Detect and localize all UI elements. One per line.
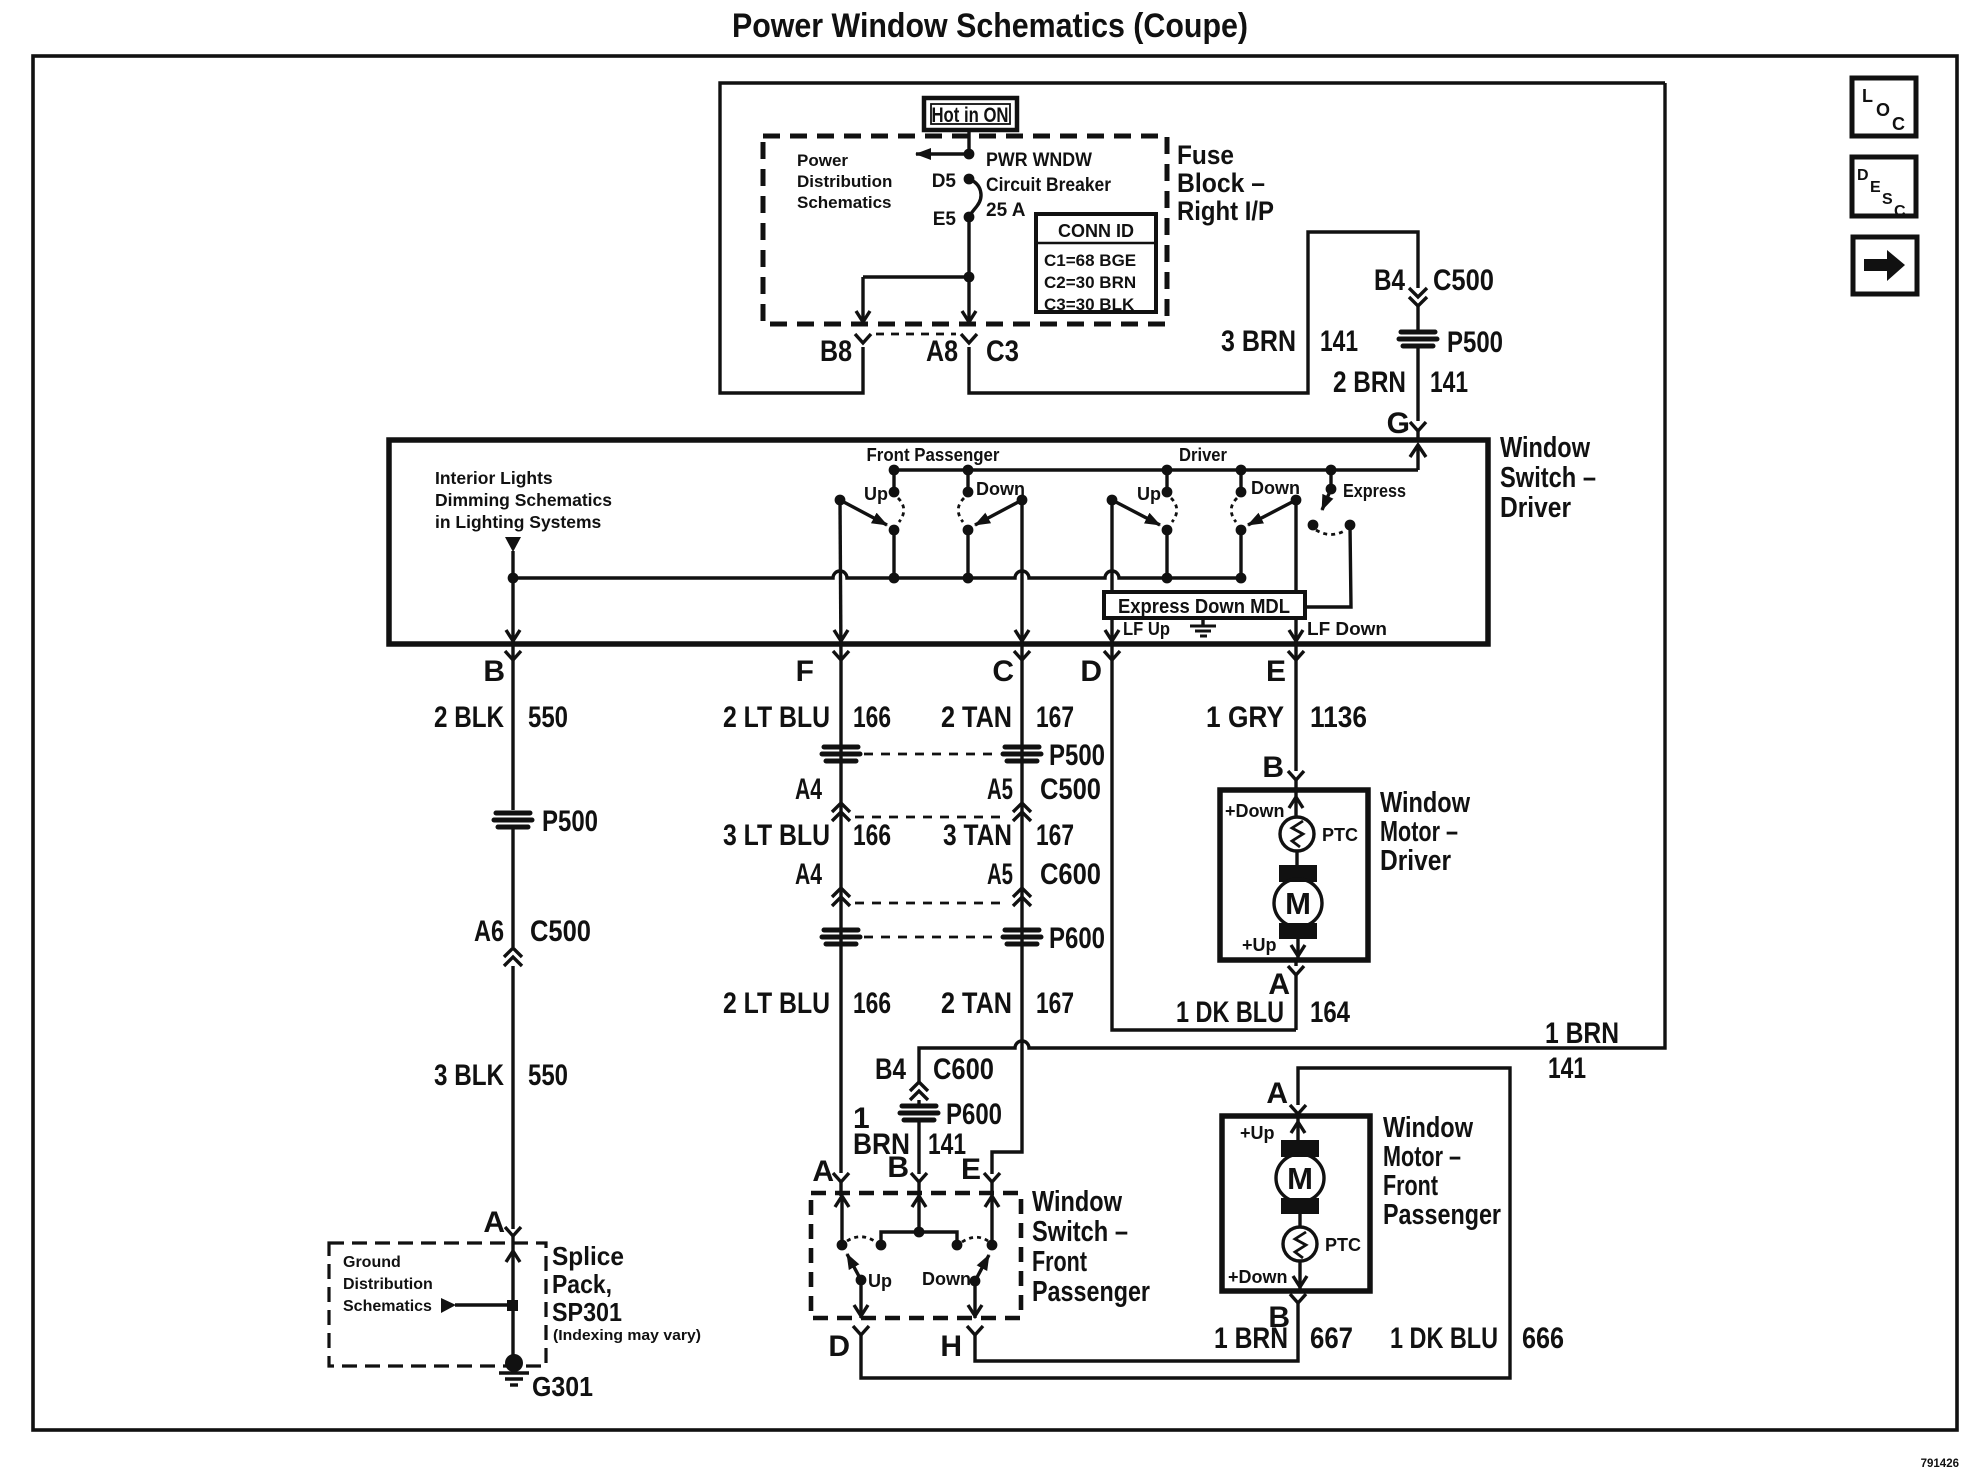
- svg-text:1136: 1136: [1310, 701, 1367, 734]
- svg-text:141: 141: [1320, 325, 1358, 358]
- exit H: [973, 1281, 976, 1318]
- Hot in ON flag: [924, 98, 1017, 130]
- svg-text:+Down: +Down: [1228, 1267, 1288, 1287]
- window motor front passenger box: [1222, 1116, 1370, 1291]
- svg-text:D5: D5: [932, 171, 957, 192]
- top bus junction dots: [889, 465, 900, 476]
- wire 2 BLK 550 (B column): [511, 660, 514, 810]
- connector A (driver motor): [1294, 960, 1297, 966]
- svg-text:B: B: [1268, 1301, 1290, 1334]
- svg-text:Fuse: Fuse: [1177, 140, 1234, 170]
- svg-text:M: M: [1285, 886, 1311, 921]
- wire to P600: [917, 1100, 920, 1107]
- svg-text:P500: P500: [1049, 739, 1105, 772]
- svg-text:667: 667: [1310, 1322, 1353, 1355]
- connector interface dashes B8/A8: [876, 333, 956, 336]
- splice P500 on F: [822, 747, 860, 761]
- svg-text:Splice: Splice: [552, 1241, 624, 1271]
- svg-text:C1=68 BGE: C1=68 BGE: [1044, 251, 1136, 270]
- svg-text:S: S: [1882, 191, 1893, 208]
- wire C inside switch: [1020, 500, 1023, 659]
- svg-text:Front: Front: [1383, 1170, 1438, 1202]
- svg-text:A4: A4: [795, 773, 822, 806]
- svg-text:550: 550: [528, 701, 568, 734]
- svg-text:A: A: [1266, 1077, 1288, 1110]
- svg-text:Motor –: Motor –: [1380, 816, 1458, 848]
- svg-text:2 LT BLU: 2 LT BLU: [723, 987, 830, 1020]
- svg-text:C500: C500: [530, 915, 591, 948]
- switch: front passenger down: [958, 470, 1027, 578]
- svg-text:550: 550: [528, 1059, 568, 1092]
- junction node and branch to B8: [964, 272, 975, 283]
- svg-text:666: 666: [1522, 1322, 1564, 1355]
- svg-text:Up: Up: [864, 484, 888, 504]
- DESC icon: [1852, 157, 1916, 220]
- wire LF Down: [1294, 618, 1297, 659]
- svg-text:3 LT BLU: 3 LT BLU: [723, 819, 830, 852]
- PTC thermistor: [1280, 817, 1314, 851]
- svg-text:in Lighting Systems: in Lighting Systems: [435, 512, 602, 532]
- svg-text:Interior Lights: Interior Lights: [435, 468, 553, 488]
- tie line P500 pair: [864, 753, 999, 756]
- connector pin C: [1014, 651, 1030, 660]
- svg-text:Distribution: Distribution: [343, 1276, 433, 1293]
- svg-text:Up: Up: [868, 1271, 892, 1291]
- svg-text:C2=30 BRN: C2=30 BRN: [1044, 273, 1136, 292]
- svg-text:166: 166: [853, 987, 891, 1020]
- connector B4 / C500: [1409, 288, 1427, 297]
- motor M: [1279, 865, 1317, 882]
- svg-text:L: L: [1862, 86, 1873, 106]
- svg-text:Passenger: Passenger: [1383, 1199, 1501, 1231]
- svg-text:Window: Window: [1380, 787, 1470, 819]
- svg-text:Switch –: Switch –: [1500, 462, 1596, 494]
- tie line C600 pair: [855, 902, 1008, 905]
- svg-text:2 BRN: 2 BRN: [1333, 366, 1406, 399]
- svg-text:G301: G301: [532, 1371, 593, 1402]
- svg-text:(Indexing may vary): (Indexing may vary): [553, 1327, 701, 1344]
- svg-text:2 LT BLU: 2 LT BLU: [723, 701, 830, 734]
- svg-text:Schematics: Schematics: [343, 1298, 432, 1315]
- svg-text:A6: A6: [474, 915, 504, 948]
- wire 3 BLK 550: [511, 966, 514, 1229]
- fp switch internals: [835, 1196, 999, 1318]
- svg-text:3 TAN: 3 TAN: [943, 819, 1012, 852]
- LOC icon: [1852, 78, 1916, 136]
- svg-text:C: C: [1892, 114, 1905, 134]
- svg-text:PTC: PTC: [1325, 1235, 1361, 1255]
- svg-text:+Up: +Up: [1242, 935, 1277, 955]
- splice P500 (ground side): [494, 805, 598, 838]
- svg-text:167: 167: [1036, 819, 1074, 852]
- svg-text:LF Up: LF Up: [1123, 619, 1170, 639]
- wire E column 1 GRY 1136 to motor B: [1294, 660, 1297, 771]
- svg-text:25 A: 25 A: [986, 200, 1026, 221]
- tie line P600 pair: [864, 936, 999, 939]
- svg-text:Express: Express: [1343, 481, 1406, 501]
- svg-text:Right I/P: Right I/P: [1177, 196, 1274, 226]
- wire F inside switch: [840, 500, 841, 659]
- wire: fuse output A8/C3 to connector B4: [969, 232, 1418, 393]
- svg-text:Schematics: Schematics: [797, 193, 892, 212]
- connector A6 C500: [504, 948, 522, 957]
- svg-text:B8: B8: [820, 335, 852, 368]
- svg-text:D: D: [1857, 167, 1869, 184]
- svg-text:Distribution: Distribution: [797, 172, 892, 191]
- connector G: [1410, 422, 1426, 431]
- svg-text:A4: A4: [795, 858, 822, 891]
- svg-text:O: O: [1876, 100, 1890, 120]
- svg-text:B: B: [887, 1151, 909, 1184]
- svg-text:C3=30 BLK: C3=30 BLK: [1044, 295, 1135, 314]
- svg-text:E: E: [1266, 655, 1286, 688]
- wire driver-up pivot to express module: [1110, 500, 1113, 592]
- svg-text:C500: C500: [1040, 773, 1101, 806]
- svg-text:PTC: PTC: [1322, 825, 1358, 845]
- dashed travel arcs: [847, 1237, 876, 1242]
- svg-text:1 DK BLU: 1 DK BLU: [1390, 1322, 1498, 1355]
- wire driver-down pivot to express module: [1294, 500, 1297, 592]
- svg-text:E: E: [961, 1153, 981, 1186]
- svg-text:C600: C600: [1040, 858, 1101, 891]
- svg-text:P500: P500: [542, 805, 598, 838]
- down blade: [970, 1276, 981, 1287]
- splice P500 on C: [1003, 739, 1105, 772]
- svg-text:C3: C3: [986, 335, 1019, 368]
- arrow from ground distribution note: [441, 1298, 456, 1313]
- bus junction dots: [508, 573, 519, 584]
- svg-text:Window: Window: [1032, 1186, 1122, 1218]
- svg-text:Driver: Driver: [1500, 492, 1571, 524]
- splice P600 (feed): [900, 1098, 1002, 1131]
- fp motor internals: [1228, 1116, 1361, 1289]
- svg-text:D: D: [828, 1330, 850, 1363]
- wire LF Up: [1110, 618, 1113, 659]
- svg-text:Passenger: Passenger: [1032, 1276, 1150, 1308]
- svg-text:Dimming Schematics: Dimming Schematics: [435, 490, 612, 510]
- circuit breaker PWR WNDW 25 A: [932, 129, 1112, 277]
- connector pin F: [833, 651, 849, 660]
- svg-text:2 TAN: 2 TAN: [941, 701, 1012, 734]
- svg-text:+Up: +Up: [1240, 1123, 1275, 1143]
- svg-text:Front Passenger: Front Passenger: [867, 445, 1000, 465]
- pin A entry: [835, 1196, 849, 1207]
- switch: express: [1305, 470, 1406, 607]
- wire P500 to G with label 2 BRN 141: [1416, 348, 1419, 421]
- svg-text:1 DK BLU: 1 DK BLU: [1176, 996, 1284, 1029]
- wire B exit: [511, 578, 514, 659]
- svg-text:A5: A5: [987, 773, 1013, 806]
- svg-text:B4: B4: [875, 1053, 906, 1086]
- svg-text:Down: Down: [976, 479, 1025, 499]
- entry arrow into splice pack: [506, 1251, 520, 1262]
- svg-text:G: G: [1387, 407, 1410, 440]
- svg-text:Hot in ON: Hot in ON: [932, 104, 1009, 127]
- wire 1 BRN 667: H to fp motor B: [975, 1311, 1298, 1361]
- svg-text:1 GRY: 1 GRY: [1206, 701, 1284, 734]
- connector B8: [855, 334, 871, 343]
- svg-text:2 BLK: 2 BLK: [434, 701, 504, 734]
- svg-text:Express Down MDL: Express Down MDL: [1118, 596, 1290, 618]
- svg-text:Window: Window: [1500, 432, 1590, 464]
- svg-text:A5: A5: [987, 858, 1013, 891]
- svg-text:Circuit Breaker: Circuit Breaker: [986, 175, 1112, 196]
- wire 2 TAN 167 (C column) with hop over feed: [992, 660, 1022, 1174]
- svg-text:LF Down: LF Down: [1307, 619, 1387, 639]
- forward arrow icon: [1853, 237, 1917, 294]
- svg-text:3 BRN: 3 BRN: [1221, 325, 1296, 358]
- fuse block dashed box: [763, 136, 1167, 324]
- ground G301: [499, 1354, 593, 1402]
- entry arrow from G: [1416, 446, 1419, 470]
- svg-text:141: 141: [1548, 1052, 1586, 1085]
- up blade: [856, 1275, 867, 1286]
- switch: driver up: [1107, 470, 1177, 578]
- wire D column (LF Up / 1 DK BLU 164): [1112, 660, 1296, 1030]
- svg-text:B: B: [1262, 751, 1284, 784]
- svg-text:167: 167: [1036, 987, 1074, 1020]
- ground at express module: [1190, 618, 1216, 636]
- svg-text:1 BRN: 1 BRN: [1545, 1017, 1619, 1050]
- express down module box: [1104, 592, 1305, 618]
- inner common bus with hop-overs: [513, 571, 1241, 578]
- wire: fuse output B8 loop (left/top rail): [720, 83, 1665, 393]
- svg-text:P500: P500: [1447, 326, 1503, 359]
- svg-text:Power Window Schematics (Coupe: Power Window Schematics (Coupe): [732, 7, 1248, 45]
- connector B4 / C600 (front passenger feed): [910, 1082, 928, 1091]
- window motor driver box: [1220, 790, 1368, 960]
- svg-text:166: 166: [853, 819, 891, 852]
- window switch front passenger dashed box: [811, 1193, 1021, 1318]
- wire 1 BRN 141 into switch B: [917, 1122, 920, 1174]
- svg-text:C600: C600: [933, 1053, 994, 1086]
- svg-text:PWR WNDW: PWR WNDW: [986, 150, 1092, 171]
- svg-text:141: 141: [1430, 366, 1468, 399]
- svg-text:Driver: Driver: [1179, 445, 1227, 465]
- svg-text:A: A: [483, 1206, 505, 1239]
- window switch driver box: [389, 440, 1488, 644]
- svg-text:A: A: [812, 1155, 834, 1188]
- wire to connector A6/C500: [511, 829, 514, 947]
- svg-text:791426: 791426: [1921, 1458, 1959, 1470]
- connector pin B: [505, 651, 521, 660]
- svg-text:H: H: [940, 1330, 962, 1363]
- svg-text:M: M: [1287, 1161, 1313, 1196]
- svg-text:B4: B4: [1374, 264, 1405, 297]
- svg-text:Block –: Block –: [1177, 168, 1265, 198]
- svg-text:Switch –: Switch –: [1032, 1216, 1128, 1248]
- svg-text:B: B: [483, 655, 505, 688]
- svg-text:C: C: [1894, 203, 1906, 220]
- arrow from interior lights note: [505, 537, 521, 552]
- svg-text:3 BLK: 3 BLK: [434, 1059, 504, 1092]
- svg-text:SP301: SP301: [552, 1297, 622, 1327]
- CONN ID table: [1036, 214, 1156, 314]
- splice P600 on C: [1003, 922, 1105, 955]
- svg-text:Motor –: Motor –: [1383, 1141, 1461, 1173]
- svg-text:Pack,: Pack,: [552, 1269, 612, 1299]
- svg-text:Ground: Ground: [343, 1254, 401, 1271]
- wire 1 DK BLU 666: D to fp motor A: [861, 1068, 1510, 1378]
- switch: front passenger up: [835, 470, 904, 578]
- svg-text:+Down: +Down: [1225, 801, 1285, 821]
- svg-text:Down: Down: [1251, 478, 1300, 498]
- svg-text:Window: Window: [1383, 1112, 1473, 1144]
- svg-text:164: 164: [1310, 996, 1350, 1029]
- svg-text:P600: P600: [1049, 922, 1105, 955]
- svg-text:Up: Up: [1137, 484, 1161, 504]
- connector pin E: [1288, 651, 1304, 660]
- ground distribution dashed box: [329, 1243, 546, 1366]
- svg-text:E5: E5: [933, 209, 957, 230]
- svg-text:Down: Down: [922, 1269, 971, 1289]
- svg-text:F: F: [796, 655, 814, 688]
- svg-text:C: C: [992, 655, 1014, 688]
- pin E entry: [985, 1196, 999, 1207]
- svg-text:E: E: [1870, 179, 1881, 196]
- svg-text:CONN ID: CONN ID: [1058, 221, 1134, 241]
- svg-text:166: 166: [853, 701, 891, 734]
- svg-text:D: D: [1080, 655, 1102, 688]
- splice P500 (feed): [1399, 326, 1503, 359]
- svg-text:C500: C500: [1433, 264, 1494, 297]
- wire 2 LT BLU 166 (F column upper): [839, 660, 842, 1173]
- svg-text:P600: P600: [946, 1098, 1002, 1131]
- top feed bus inside switch: [894, 468, 1418, 471]
- motor driver internals: [1225, 790, 1358, 958]
- splice P600 on F: [822, 930, 860, 944]
- svg-text:Power: Power: [797, 151, 848, 170]
- pin B entry and feed bar: [912, 1196, 926, 1207]
- svg-text:2 TAN: 2 TAN: [941, 987, 1012, 1020]
- connector A8 / C3: [961, 334, 977, 343]
- tie line C500 pair: [855, 816, 1008, 819]
- wire: 1 BRN 141 right rail down to front passenger switch feed: [919, 83, 1665, 1082]
- svg-text:Front: Front: [1032, 1246, 1087, 1278]
- switch: driver down: [1231, 470, 1301, 578]
- svg-text:A8: A8: [926, 335, 958, 368]
- connector pin D: [1104, 651, 1120, 660]
- exit D: [859, 1280, 862, 1318]
- svg-text:167: 167: [1036, 701, 1074, 734]
- wire B4 to P500: [1416, 306, 1419, 331]
- svg-text:Driver: Driver: [1380, 845, 1451, 877]
- arrow to power distribution: [916, 152, 969, 155]
